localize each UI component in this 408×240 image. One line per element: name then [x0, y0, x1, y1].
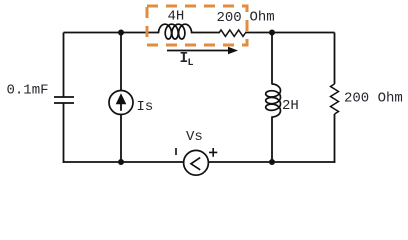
current arrow IL [167, 50, 229, 52]
capacitor C1 plates [54, 97, 74, 103]
svg-text:Ohm: Ohm [250, 10, 275, 26]
resistor R1 zigzag (top) [219, 30, 245, 36]
plus terminal [209, 148, 217, 157]
svg-text:4H: 4H [168, 9, 185, 25]
voltage source Vs symbol [191, 158, 200, 170]
wire right [334, 33, 336, 163]
inductor L2 2H coil [266, 84, 281, 117]
wire bottom [63, 161, 336, 163]
wire left [63, 33, 65, 98]
wire current-source branch lower [120, 115, 122, 163]
current source Is arrow [116, 93, 127, 104]
svg-text:200: 200 [217, 10, 242, 26]
wire current-source branch upper [120, 33, 122, 91]
minus terminal tick [175, 148, 177, 155]
wire 2H branch upper [271, 33, 273, 85]
voltage source Vs circle [184, 150, 209, 175]
node A top junction dot [118, 30, 124, 36]
svg-text:200 Ohm: 200 Ohm [344, 91, 403, 107]
wire top [64, 32, 335, 34]
wire left lower [63, 103, 65, 163]
current source Is circle [109, 91, 133, 115]
inductor L1 4H coil [159, 24, 192, 39]
svg-text:0.1mF: 0.1mF [7, 83, 49, 99]
wire 2H branch lower [271, 117, 273, 163]
node C top junction dot (2H branch) [269, 30, 275, 36]
resistor R2 zigzag (right) [331, 84, 339, 114]
svg-text:Is: Is [137, 99, 154, 115]
svg-text:2H: 2H [282, 98, 299, 114]
svg-text:Vs: Vs [186, 129, 203, 145]
svg-text:L: L [188, 58, 194, 69]
highlight box (orange dashed) [147, 6, 247, 45]
node B bottom junction dot [118, 159, 124, 165]
node D bottom junction dot (2H branch) [269, 159, 275, 165]
